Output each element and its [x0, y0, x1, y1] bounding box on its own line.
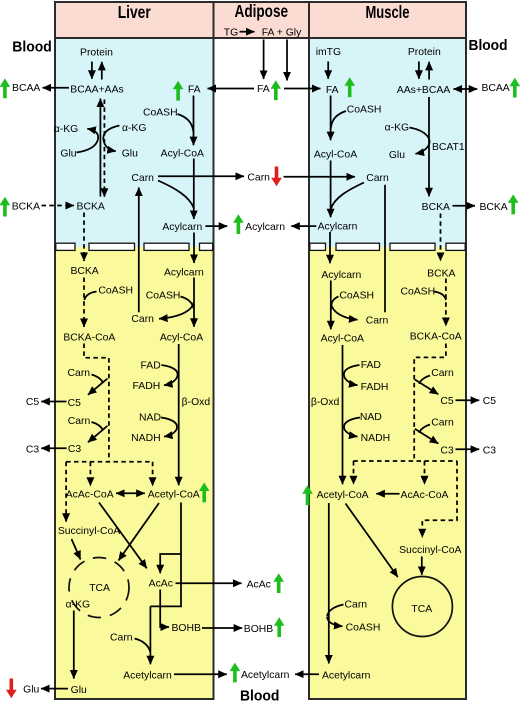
curve CoASH join Acylcarn line liver	[181, 297, 194, 310]
wire C5 export	[41, 401, 66, 403]
svg-text:Acetylcarn: Acetylcarn	[322, 671, 371, 682]
svg-text:Carn: Carn	[345, 600, 368, 611]
svg-text:CoASH: CoASH	[346, 623, 381, 634]
svg-text:Acetyl-CoA: Acetyl-CoA	[317, 490, 369, 501]
svg-text:TCA: TCA	[411, 604, 432, 615]
curve Carn join C3 diagonal muscle	[419, 425, 430, 433]
arrow BCKA to BCKACoA dashed muscle	[445, 279, 447, 327]
arrow imTG to FA	[327, 62, 329, 79]
svg-text:Acyl-CoA: Acyl-CoA	[160, 333, 203, 344]
svg-text:Acyl-CoA: Acyl-CoA	[321, 334, 364, 345]
svg-text:BCKA-CoA: BCKA-CoA	[63, 333, 115, 344]
arrow BCAA+AAs to BCKA dashed down	[103, 100, 105, 197]
liver box border	[55, 2, 214, 699]
dashed path BCKACoA down and left muscle	[414, 344, 446, 462]
curve CoASH join Acylcarn muscle	[331, 297, 339, 311]
svg-text:Succinyl-CoA: Succinyl-CoA	[399, 545, 461, 556]
svg-text:BCAA: BCAA	[481, 83, 509, 94]
wire liver BOHB to adipose	[202, 627, 242, 629]
svg-text:imTG: imTG	[316, 47, 341, 58]
arrow BCKA through membrane dashed muscle	[440, 214, 442, 262]
double arrow BCAA blood right	[454, 88, 478, 90]
arrow beta oxidation liver	[178, 344, 180, 485]
svg-text:Acylcarn: Acylcarn	[162, 222, 202, 233]
wire Glu export	[41, 688, 68, 690]
svg-text:FADH: FADH	[361, 382, 389, 393]
svg-text:NAD: NAD	[139, 413, 161, 424]
svg-text:BCKA: BCKA	[77, 202, 105, 213]
curve FAD to FADH muscle	[344, 365, 360, 385]
curve CoASH join BCKA dashed	[84, 292, 96, 301]
svg-text:Glu: Glu	[389, 150, 405, 161]
svg-text:Acyl-CoA: Acyl-CoA	[161, 148, 204, 159]
dashed horizontal junction muscle	[353, 460, 457, 462]
svg-text:TG: TG	[224, 28, 238, 39]
green arrow AcetylCoA muscle	[302, 485, 313, 505]
arrow AcAcCoA to AcetylCoA muscle	[376, 493, 399, 495]
svg-text:α-KG: α-KG	[385, 122, 409, 133]
svg-text:BCKA: BCKA	[12, 201, 40, 212]
wire C3 export	[41, 447, 66, 449]
svg-text:Carn: Carn	[247, 172, 270, 183]
arrow BCKA to BCAA+AAs solid up	[99, 99, 101, 197]
svg-text:NADH: NADH	[131, 433, 160, 444]
arrow TG to FA	[240, 31, 255, 33]
wire C3 export right	[456, 448, 480, 450]
svg-text:NAD: NAD	[360, 412, 382, 423]
svg-text:AcAc-CoA: AcAc-CoA	[66, 489, 114, 500]
arrow beta oxidation muscle	[342, 345, 344, 484]
svg-text:AcAc: AcAc	[149, 579, 173, 590]
svg-text:Acyl-CoA: Acyl-CoA	[314, 149, 357, 160]
svg-text:FA + Gly: FA + Gly	[262, 28, 302, 39]
svg-text:FAD: FAD	[361, 360, 381, 371]
svg-text:Glu: Glu	[71, 685, 87, 696]
dashed arrow to AcAcCoA liver	[89, 462, 91, 486]
svg-text:BCKA: BCKA	[427, 269, 455, 280]
svg-text:β-Oxd: β-Oxd	[182, 397, 211, 408]
svg-text:Acetylcarn: Acetylcarn	[123, 670, 172, 681]
svg-text:AcAc: AcAc	[247, 579, 271, 590]
curve CoASH join FA muscle	[331, 111, 346, 129]
curve Carn released liver	[159, 302, 194, 319]
dashed path BCKACoA down and right	[84, 344, 109, 462]
wire liver Acetylcarn to adipose	[174, 673, 227, 675]
svg-text:BOHB: BOHB	[171, 623, 201, 634]
curve Carn released muscle	[331, 303, 358, 320]
svg-text:FADH: FADH	[133, 381, 161, 392]
svg-text:BCKA: BCKA	[479, 202, 507, 213]
red arrow Carn adipose	[271, 167, 282, 187]
svg-text:Blood: Blood	[469, 37, 508, 54]
svg-text:C3: C3	[483, 445, 497, 456]
muscle membrane slabs	[310, 243, 465, 250]
arrow aKG to Glu liver	[73, 611, 75, 679]
wire BCAA export left	[43, 87, 70, 89]
liver box blue cytosol region	[55, 38, 214, 247]
svg-text:Carn: Carn	[366, 315, 389, 326]
dashed arrow to AcetylCoA muscle	[353, 461, 355, 484]
wire BCKA uptake dashed	[42, 205, 75, 207]
muscle pink header	[309, 2, 466, 38]
svg-text:CoASH: CoASH	[347, 104, 382, 115]
svg-text:BCKA: BCKA	[422, 202, 450, 213]
arrow Protein down liver	[91, 62, 93, 79]
svg-text:TCA: TCA	[89, 583, 110, 594]
arrow BCKA to BCKACoA dashed	[83, 278, 85, 328]
green arrow AcAc adipose	[273, 573, 284, 593]
svg-text:C3: C3	[68, 444, 82, 455]
dashed arrow to AcetylCoA liver	[152, 462, 154, 486]
curve Glu left to Glu right	[77, 129, 99, 153]
curve Carn join Acetylcarn liver	[135, 639, 151, 653]
curve FAD to FADH liver	[162, 365, 178, 385]
arrow Acylcarn to AcylCoA muscle mito	[330, 281, 332, 330]
svg-text:Glu: Glu	[60, 149, 76, 160]
svg-text:FA: FA	[257, 84, 270, 95]
wire liver Acylcarn to adipose	[205, 225, 227, 227]
svg-text:CoASH: CoASH	[146, 291, 181, 302]
arrow Acylcarn to AcylCoA liver mito	[193, 278, 195, 327]
svg-text:Carn: Carn	[366, 173, 389, 184]
svg-text:AcAc-CoA: AcAc-CoA	[401, 490, 449, 501]
arrow BCKA through membrane dashed liver	[83, 213, 85, 262]
svg-text:AAs+BCAA: AAs+BCAA	[397, 85, 450, 96]
svg-text:α-KG: α-KG	[54, 124, 78, 135]
wire adipose Carn to muscle Carn	[284, 176, 356, 178]
wire C5 export right	[456, 399, 480, 401]
svg-text:Protein: Protein	[408, 47, 441, 58]
double arrow AcAcCoA AcetylCoA	[116, 492, 145, 494]
curve Carn join Acylcarn muscle	[331, 183, 364, 210]
curve CoASH join FA line	[178, 114, 194, 132]
arrow SuccinylCoA to TCA	[72, 539, 81, 560]
svg-text:Acylcarn: Acylcarn	[245, 222, 285, 233]
wire AcetylCoA down liver	[150, 503, 181, 607]
arrow AAsBCAA to BCKA muscle	[428, 97, 430, 196]
svg-text:Blood: Blood	[12, 39, 52, 56]
svg-text:β-Oxd: β-Oxd	[311, 397, 340, 408]
curve CoASH released muscle	[327, 617, 343, 626]
arrow FA to AcylCoA liver	[193, 96, 195, 146]
arrow Carn up through membrane liver	[138, 188, 140, 313]
svg-text:C3: C3	[26, 445, 40, 456]
svg-text:BCKA-CoA: BCKA-CoA	[410, 332, 462, 343]
wire muscle Acylcarn to adipose	[291, 225, 316, 227]
svg-text:C5: C5	[440, 396, 454, 407]
liver pink header	[55, 2, 214, 38]
green arrow BCKA left	[0, 197, 10, 217]
curve aKG to Glu BCAT1	[410, 128, 430, 154]
arrow AcetylCoA to TCA muscle	[346, 504, 398, 578]
curve aKG right to aKG left	[103, 126, 119, 152]
arrow FA to AcylCoA muscle	[330, 96, 332, 141]
svg-text:Carn: Carn	[110, 632, 133, 643]
green arrow FA adipose	[271, 80, 282, 100]
green arrow Acylcarn adipose	[233, 214, 244, 234]
svg-text:Acylcarn: Acylcarn	[164, 267, 204, 278]
arrow AcetylCoA to AcAc L-shape	[160, 554, 181, 573]
svg-text:BOHB: BOHB	[244, 624, 274, 635]
arrow SuccinylCoA to TCA muscle	[421, 557, 423, 575]
svg-text:FAD: FAD	[140, 360, 160, 371]
dashed path to SuccinylCoA muscle	[422, 461, 457, 537]
wire FA adipose to muscle	[284, 88, 321, 90]
curve Carn join C5 diagonal muscle	[419, 376, 430, 384]
svg-text:BCKA: BCKA	[70, 266, 98, 277]
svg-text:Carn: Carn	[68, 416, 91, 427]
svg-text:FA: FA	[188, 85, 201, 96]
liver box yellow mitochondria region	[55, 247, 214, 699]
arrow AcAcCoA to AcAc diagonal	[99, 503, 147, 569]
curve Carn join Acetylcarn muscle	[327, 605, 344, 617]
curve CoASH join BCKA muscle	[434, 292, 446, 301]
dashed arrow to AcAcCoA muscle	[424, 461, 426, 484]
arrow Protein up liver	[101, 62, 103, 80]
green arrow BCKA right	[508, 194, 519, 214]
green arrow BCAA right	[510, 78, 520, 98]
red arrow Glu left	[6, 679, 17, 699]
wire liver AcAc to adipose	[176, 582, 242, 584]
arrow AcetylCoA to TCA diagonal	[119, 503, 160, 561]
svg-text:Succinyl-CoA: Succinyl-CoA	[58, 526, 120, 537]
wire BCKA export right	[453, 205, 476, 207]
curve Carn join Acylcarn line	[158, 181, 194, 209]
svg-text:α-KG: α-KG	[122, 123, 146, 134]
svg-text:CoASH: CoASH	[339, 290, 374, 301]
muscle box blue cytosol region	[309, 38, 466, 247]
svg-text:Glu: Glu	[23, 685, 39, 696]
svg-text:C5: C5	[483, 396, 497, 407]
arrow AcAc to BOHB	[160, 590, 169, 628]
svg-text:C5: C5	[68, 398, 82, 409]
arrow Acylcarn through membrane muscle	[329, 232, 331, 263]
TCA circle liver dashed	[69, 558, 129, 618]
arrow Protein up muscle	[428, 62, 430, 80]
dashed arrow to SuccinylCoA liver	[65, 462, 67, 522]
svg-text:C5: C5	[26, 397, 40, 408]
svg-text:Liver: Liver	[118, 2, 151, 22]
svg-text:CoASH: CoASH	[98, 286, 133, 297]
adipose arrow Gly down	[286, 40, 288, 81]
svg-text:Acetyl-CoA: Acetyl-CoA	[148, 489, 200, 500]
svg-text:Carn: Carn	[131, 173, 154, 184]
arrow to C3 liver	[88, 426, 108, 443]
adipose arrow FA down	[263, 40, 265, 80]
muscle box border	[309, 2, 466, 699]
green arrow BCAA left	[0, 78, 10, 98]
svg-text:Glu: Glu	[122, 149, 138, 160]
svg-text:α-KG: α-KG	[66, 600, 90, 611]
svg-text:Acylcarn: Acylcarn	[318, 222, 358, 233]
svg-text:FA: FA	[326, 85, 339, 96]
wire Carn down muscle	[384, 185, 386, 312]
svg-text:NADH: NADH	[361, 433, 390, 444]
arrow to C3 muscle	[415, 429, 439, 444]
svg-text:C3: C3	[440, 445, 454, 456]
arrow AcylCoA to Acylcarn muscle	[330, 161, 332, 218]
wire muscle Acetylcarn to adipose	[295, 673, 319, 675]
svg-text:BCAA+AAs: BCAA+AAs	[70, 85, 123, 96]
arrow Protein down muscle	[418, 62, 420, 79]
svg-text:BCAA: BCAA	[12, 83, 40, 94]
adipose pink header	[214, 2, 310, 38]
svg-text:Carn: Carn	[431, 417, 454, 428]
dashed horizontal junction liver	[66, 461, 153, 463]
arrow AcylCoA to Acylcarn liver	[193, 159, 195, 220]
arrow AcetylCoA to Acetylcarn liver	[149, 606, 151, 664]
muscle box yellow mitochondria region	[309, 247, 466, 699]
wire FA adipose to liver	[208, 88, 255, 90]
svg-text:Muscle: Muscle	[366, 2, 410, 22]
svg-text:Carn: Carn	[431, 368, 454, 379]
svg-text:Acetylcarn: Acetylcarn	[241, 670, 290, 681]
svg-text:Protein: Protein	[80, 48, 113, 59]
curve NAD to NADH liver	[161, 418, 177, 437]
svg-text:Acylcarn: Acylcarn	[321, 270, 361, 281]
green arrow BOHB adipose	[274, 617, 285, 637]
svg-text:BCAT1: BCAT1	[432, 142, 465, 153]
green arrow FA liver	[173, 81, 184, 101]
svg-text:Adipose: Adipose	[235, 1, 289, 21]
liver membrane slabs	[56, 243, 213, 250]
svg-text:Blood: Blood	[240, 688, 280, 704]
green arrow FA muscle	[344, 77, 355, 97]
arrow to C5 liver	[88, 379, 108, 395]
svg-text:Carn: Carn	[68, 368, 91, 379]
arrow to C5 muscle	[415, 380, 439, 395]
green arrow Acetylcarn adipose	[230, 663, 241, 683]
curve NAD to NADH muscle	[344, 418, 360, 437]
arrow Acylcarn through membrane liver	[193, 233, 195, 264]
curve Carn join C3 diagonal	[92, 422, 104, 430]
svg-text:CoASH: CoASH	[143, 107, 178, 118]
svg-text:CoASH: CoASH	[400, 286, 435, 297]
wire liver Carn to adipose Carn	[158, 175, 244, 177]
TCA circle muscle	[392, 577, 452, 637]
arrow AcetylCoA to Acetylcarn muscle	[328, 503, 330, 664]
svg-text:Carn: Carn	[131, 314, 154, 325]
green arrow AcetylCoA liver	[199, 483, 210, 503]
curve Carn join C5 diagonal	[92, 375, 104, 383]
